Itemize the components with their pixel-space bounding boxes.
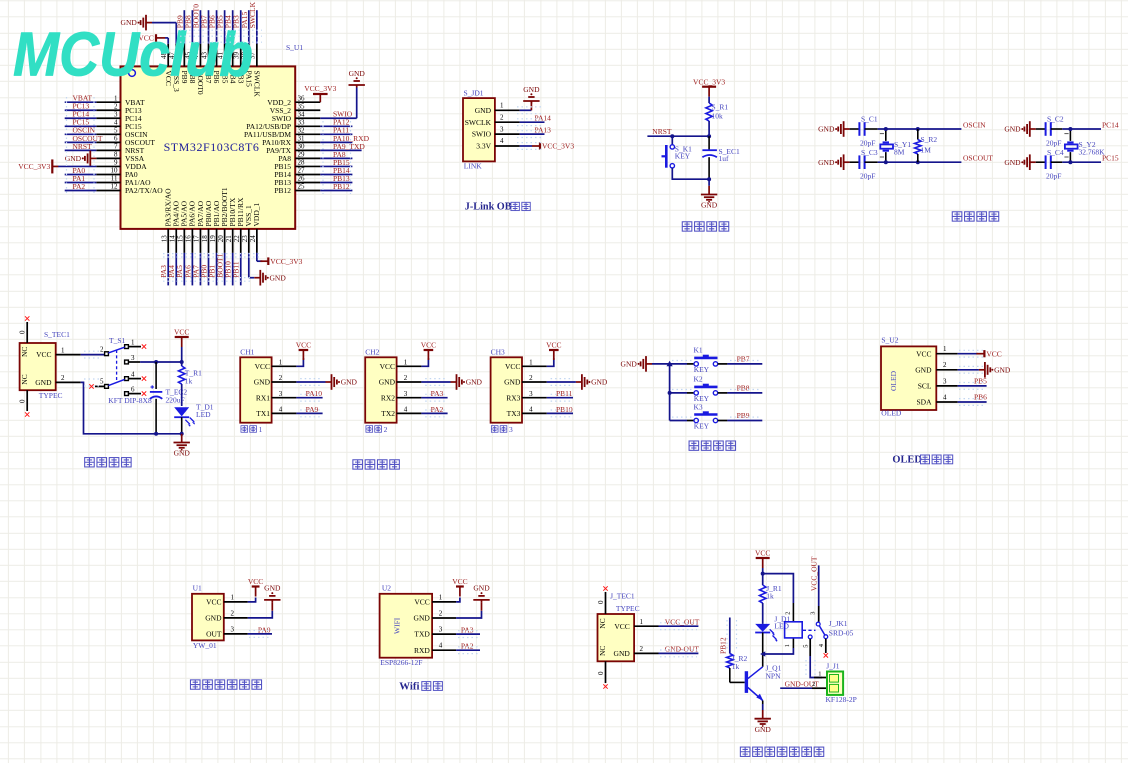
svg-text:2: 2 (114, 102, 118, 110)
svg-text:15: 15 (177, 235, 185, 243)
svg-text:VCC: VCC (36, 350, 51, 359)
svg-text:GND: GND (379, 378, 396, 387)
svg-text:GND: GND (591, 378, 608, 387)
wire net PB10 bottom (224, 253, 233, 286)
MCU pin 23 VSS_1 (241, 205, 253, 253)
svg-text:4: 4 (439, 642, 443, 650)
svg-text:KEY: KEY (694, 365, 710, 374)
svg-text:VCC: VCC (546, 341, 561, 350)
svg-text:12: 12 (111, 183, 119, 191)
svg-text:4: 4 (943, 393, 947, 401)
svg-text:GND: GND (818, 158, 835, 167)
svg-text:2: 2 (500, 113, 504, 121)
wire net PA2 (421, 405, 447, 414)
CH2 pin 2 GND (379, 374, 422, 386)
svg-text:PB9: PB9 (737, 411, 750, 420)
U2 pin 1 VCC (414, 593, 456, 606)
svg-text:VCC_OUT: VCC_OUT (809, 556, 818, 591)
svg-text:J_TEC1: J_TEC1 (610, 591, 635, 600)
resistor T_R1 1k (179, 366, 203, 386)
svg-text:5: 5 (803, 645, 810, 648)
wire + power VCC CH3 (546, 341, 561, 367)
MCU pin 42 PB6 (208, 44, 221, 84)
wire LED to collector (762, 633, 764, 667)
svg-text:3: 3 (439, 626, 443, 634)
S_JD1 pin 3 SWIO (472, 125, 520, 138)
MCU pin 45 PB8 (184, 44, 197, 84)
svg-text:GND: GND (755, 725, 772, 734)
MCU pin 38 PA15 (241, 44, 254, 87)
svg-text:19: 19 (209, 235, 217, 243)
svg-text:PA2/TX/AO: PA2/TX/AO (125, 186, 163, 195)
svg-text:PA0: PA0 (258, 625, 271, 634)
wire R1 to LED relay (762, 603, 764, 624)
wire net PB0 bottom (199, 253, 208, 286)
label serial port 2 (366, 425, 388, 434)
svg-text:1uf: 1uf (719, 154, 730, 163)
svg-text:3: 3 (943, 377, 947, 385)
S_TEC1 bottom pin 0 (19, 390, 30, 417)
wire ground to key column (652, 363, 670, 365)
wire net PB11 (547, 389, 573, 398)
crystal S_Y1 8M (880, 129, 912, 162)
CH3 pin 1 VCC (505, 359, 547, 371)
MCU pin 4 PC15 (96, 118, 142, 130)
svg-text:PA2: PA2 (461, 642, 474, 651)
MCU pin 36 VDD_2 (267, 94, 320, 106)
MCU pin 14 PA4/AO (169, 200, 181, 253)
svg-text:25: 25 (298, 183, 306, 191)
svg-text:T_S1: T_S1 (109, 336, 126, 345)
MCU pin 43 PB7 (200, 44, 213, 84)
wire coil bottom to junction (792, 638, 794, 648)
ground crystal2 bottom (1004, 154, 1035, 170)
svg-text:20pF: 20pF (860, 172, 875, 181)
svg-text:16: 16 (185, 235, 193, 243)
svg-text:PB8: PB8 (737, 383, 750, 392)
svg-text:2: 2 (404, 374, 408, 382)
wire net PA11 (320, 126, 352, 135)
svg-text:4: 4 (500, 137, 504, 145)
svg-text:S_U1: S_U1 (286, 43, 303, 52)
wire net VCC_OUT (659, 617, 700, 626)
wire net PA3 wifi (456, 626, 480, 635)
title power circuit (85, 458, 131, 467)
title water level module (190, 680, 261, 689)
svg-text:SRD-05: SRD-05 (829, 628, 854, 637)
svg-text:RXD: RXD (414, 646, 430, 655)
MCU U1 body STM32F103C8T6 (S_U1) (121, 66, 296, 229)
svg-text:4: 4 (131, 371, 135, 379)
MCU pin 15 PA5/AO (177, 200, 189, 253)
ground at MCU pin 47 VSS_3 (121, 15, 177, 44)
svg-text:32: 32 (298, 127, 306, 135)
svg-text:20pF: 20pF (1046, 172, 1061, 181)
CH1 pin 3 RX1 (256, 390, 297, 402)
svg-text:29: 29 (298, 151, 306, 159)
CH2 pin 4 TX2 (381, 406, 421, 418)
svg-text:KFT DIP-8X8: KFT DIP-8X8 (108, 396, 152, 405)
transistor J_Q1 NPN (746, 664, 781, 701)
svg-text:3: 3 (529, 390, 533, 398)
svg-text:17: 17 (193, 235, 201, 243)
wire NRST node to cap (708, 136, 710, 150)
svg-text:1: 1 (529, 359, 533, 367)
svg-text:GND: GND (349, 69, 366, 78)
connector CH1 body (240, 357, 271, 422)
svg-text:18: 18 (201, 235, 209, 243)
svg-text:1: 1 (439, 593, 443, 601)
ground crystal2 top (1004, 121, 1035, 137)
MCU pin 39 PB3 (233, 44, 246, 84)
svg-text:0: 0 (19, 330, 27, 334)
MCU pin 20 PB2/BOOT1 (217, 187, 229, 253)
svg-text:2: 2 (279, 374, 283, 382)
S_TEC1 pin 2 GND (20, 374, 81, 387)
wire OSCIN (865, 121, 986, 130)
wire net PA0 (65, 166, 97, 175)
ground reset (701, 179, 718, 209)
S_TEC1 top pin 0 (19, 316, 30, 343)
pushbutton K2 KEY (670, 375, 728, 403)
svg-text:GND: GND (614, 649, 631, 658)
wire net PC14 (65, 110, 97, 119)
ground power circuit (174, 434, 191, 458)
svg-text:TX1: TX1 (256, 409, 270, 418)
ground crystal1 top (818, 121, 849, 137)
wire net PA2 (65, 182, 97, 191)
wire net PA9_TXD (320, 142, 365, 151)
svg-text:5: 5 (114, 127, 118, 135)
svg-text:NPN: NPN (766, 672, 782, 681)
MCU pin 31 PA10/RX (262, 135, 320, 147)
wire net PB7 top (200, 10, 209, 44)
wire net PA3 (421, 389, 447, 398)
wire net PB9 top (175, 10, 184, 44)
svg-text:SWCLK: SWCLK (253, 71, 262, 98)
svg-text:3: 3 (809, 611, 816, 614)
node junction ground rail (707, 177, 711, 181)
wire down to key S_K1 (671, 136, 673, 145)
svg-text:S_C3: S_C3 (861, 148, 878, 157)
svg-text:1: 1 (231, 593, 235, 601)
capacitor S_C3 20pF (850, 148, 878, 181)
svg-text:CH1: CH1 (240, 348, 254, 357)
wire LED to ground rail (181, 417, 183, 434)
U2 pin 2 GND (414, 609, 457, 622)
svg-text:S_C4: S_C4 (1047, 148, 1064, 157)
svg-text:SWIO: SWIO (472, 130, 492, 139)
svg-text:PA2: PA2 (431, 405, 444, 414)
U1 pin 2 GND (205, 609, 248, 622)
capacitor S_EC1 1uf (702, 147, 740, 163)
svg-text:OSCOUT: OSCOUT (963, 154, 993, 163)
wire net PB13 (320, 174, 352, 183)
svg-text:4: 4 (404, 406, 408, 414)
wire net PA9 (296, 405, 322, 414)
svg-text:2: 2 (61, 374, 65, 382)
wire net PB5 (958, 376, 987, 386)
svg-text:VCC: VCC (755, 549, 770, 558)
svg-text:NRST: NRST (73, 142, 93, 151)
MCU pin 2 PC13 (96, 102, 142, 114)
svg-text:PB11: PB11 (232, 261, 241, 278)
ground rail wire power circuit (81, 382, 182, 433)
svg-text:NRST: NRST (652, 127, 672, 136)
svg-text:10k: 10k (712, 112, 724, 121)
svg-text:9: 9 (114, 159, 118, 167)
svg-text:S_TEC1: S_TEC1 (44, 330, 70, 339)
svg-text:3: 3 (114, 110, 118, 118)
wire OSCOUT (865, 154, 994, 163)
svg-text:1: 1 (259, 425, 263, 434)
svg-text:PA9: PA9 (306, 405, 319, 414)
svg-text:2: 2 (785, 612, 792, 615)
svg-text:VCC_3V3: VCC_3V3 (304, 84, 336, 93)
wire net GND-OUT to J_J1 pin2 (780, 679, 819, 688)
svg-text:PA10: PA10 (306, 389, 323, 398)
svg-text:GND: GND (341, 378, 358, 387)
svg-text:U2: U2 (382, 583, 391, 592)
MCU marker circle (129, 70, 136, 77)
svg-text:22: 22 (233, 235, 241, 243)
svg-text:GND: GND (174, 449, 191, 458)
CH1 pin 1 VCC (255, 359, 297, 371)
svg-text:SWIO: SWIO (333, 110, 353, 119)
wire VCC to switch (81, 354, 105, 356)
svg-text:GND: GND (205, 614, 222, 623)
wire net PA0 (248, 625, 272, 634)
svg-text:VCC_3V3: VCC_3V3 (18, 162, 50, 171)
wire net PB14 (320, 166, 352, 175)
svg-text:1: 1 (640, 618, 644, 626)
MCU pin 44 BOOT0 (192, 44, 205, 95)
svg-text:GND: GND (915, 365, 932, 374)
svg-text:1: 1 (943, 345, 947, 353)
U2 pin 3 TXD (414, 626, 456, 639)
resistor S_R1 10k (706, 103, 729, 122)
svg-text:PB10: PB10 (556, 405, 573, 414)
MCU pin 35 VSS_2 (270, 102, 321, 114)
wire net PB11 bottom (232, 253, 241, 286)
svg-text:2: 2 (100, 346, 104, 354)
crystal S_Y2 32.768K (1064, 129, 1105, 162)
CH2 pin 3 RX2 (381, 390, 422, 402)
wire net PA14 (520, 113, 552, 122)
MCU pin 8 VSSA (96, 151, 144, 163)
wire net PA12 (320, 118, 352, 127)
svg-text:RX3: RX3 (506, 393, 520, 402)
module U2 body ESP8266 (380, 594, 433, 658)
connector J_J1 KF128-2P (812, 661, 857, 704)
MCU pin 6 OSCOUT (96, 135, 155, 147)
svg-text:20: 20 (217, 235, 225, 243)
svg-text:1: 1 (404, 359, 408, 367)
svg-text:1: 1 (279, 359, 283, 367)
svg-text:OLED: OLED (892, 455, 921, 466)
svg-text:TXD: TXD (414, 630, 430, 639)
MCU pin 25 PB12 (274, 183, 320, 195)
svg-text:SCL: SCL (918, 382, 932, 391)
svg-text:14: 14 (169, 235, 177, 243)
MCU pin 21 PB10/TX (225, 197, 237, 253)
svg-text:1: 1 (131, 339, 135, 347)
svg-text:GND: GND (35, 378, 52, 387)
MCU pin 24 VDD_1 (249, 203, 261, 253)
MCU pin 3 PC14 (96, 110, 142, 122)
power VCC of power circuit (174, 328, 189, 347)
power VCC_3V3 at MCU pin 24 VDD_1 (257, 253, 303, 266)
svg-text:Wifi: Wifi (399, 681, 419, 693)
wire + ground CH2 (421, 374, 482, 390)
svg-text:4: 4 (818, 643, 825, 647)
wire net PB6 (958, 392, 987, 402)
wire net SWCLK top (248, 1, 257, 43)
connector S_U2 OLED body (881, 346, 936, 410)
wire switch pin3 to VCC column (140, 361, 182, 363)
wire cap to ground rail (155, 399, 157, 434)
svg-text:34: 34 (298, 110, 306, 118)
svg-text:5: 5 (100, 377, 104, 385)
capacitor S_C1 20pF (850, 114, 878, 147)
svg-text:SWCLK: SWCLK (465, 118, 492, 127)
svg-text:NC: NC (598, 618, 607, 628)
node junction arrow K1 (667, 361, 673, 367)
svg-text:PA3: PA3 (461, 626, 474, 635)
svg-text:GND: GND (1004, 158, 1021, 167)
svg-text:PB12: PB12 (274, 186, 291, 195)
svg-text:GND: GND (818, 125, 835, 134)
svg-text:2: 2 (943, 361, 947, 369)
node junction cap top (154, 360, 158, 364)
wire relay pin5 to connector J_J1 (810, 656, 822, 678)
svg-text:1: 1 (61, 346, 65, 354)
svg-text:3: 3 (509, 425, 513, 434)
svg-text:WIFI: WIFI (393, 617, 402, 634)
power VCC relay (755, 549, 770, 568)
svg-text:1M: 1M (921, 146, 932, 155)
svg-text:TYPEC: TYPEC (39, 391, 63, 400)
svg-text:4: 4 (114, 118, 118, 126)
J_TEC1 pin 1 VCC (598, 618, 659, 631)
resistor J_R1 1k (760, 584, 782, 603)
svg-text:20pF: 20pF (1046, 139, 1061, 148)
svg-text:PC14: PC14 (1102, 121, 1119, 130)
wire net PA10 (296, 389, 322, 398)
wire net OSCOUT (65, 134, 103, 143)
svg-text:1: 1 (784, 644, 791, 647)
svg-text:PA2: PA2 (73, 182, 86, 191)
svg-text:27: 27 (298, 167, 306, 175)
title serial circuit (353, 460, 399, 469)
svg-text:K3: K3 (694, 402, 703, 411)
svg-text:VCC_3V3: VCC_3V3 (542, 142, 574, 151)
svg-text:PB6: PB6 (974, 392, 987, 401)
svg-text:VCC: VCC (421, 341, 436, 350)
svg-text:RX1: RX1 (256, 393, 270, 402)
node junction relay coil branch (761, 572, 765, 576)
wire net PC13 (65, 102, 97, 111)
svg-text:YW_01: YW_01 (193, 641, 217, 650)
svg-text:2: 2 (812, 681, 815, 688)
svg-text:S_R1: S_R1 (712, 103, 729, 112)
svg-text:VCC: VCC (380, 362, 395, 371)
node junction switch/VCC (180, 360, 184, 364)
svg-text:VDD_1: VDD_1 (252, 203, 261, 227)
svg-text:VCC: VCC (986, 349, 1001, 358)
svg-text:26: 26 (298, 175, 306, 183)
relay switch contacts (803, 606, 828, 658)
resistor S_R2 1M (915, 129, 938, 162)
svg-text:1: 1 (500, 102, 504, 110)
svg-text:PB11: PB11 (556, 389, 573, 398)
svg-text:GND: GND (1004, 125, 1021, 134)
S_U2 pin 4 SDA (916, 393, 957, 406)
svg-text:GND: GND (621, 360, 638, 369)
capacitor S_C4 20pF (1036, 148, 1064, 181)
wire VCC to R1 (708, 97, 710, 103)
wire + power VCC U1 (248, 577, 264, 602)
ground keys (621, 356, 652, 372)
pushbutton K3 KEY (670, 402, 728, 430)
svg-text:21: 21 (225, 235, 233, 243)
MCU pin 9 VDDA (96, 159, 147, 171)
power VCC_3V3 reset (693, 77, 725, 96)
svg-text:28: 28 (298, 159, 306, 167)
svg-text:TYPEC: TYPEC (616, 604, 640, 613)
wire down to cap T_EC2 (155, 362, 157, 389)
svg-text:2: 2 (231, 609, 235, 617)
svg-text:LED: LED (774, 622, 789, 631)
wire net PB4 top (224, 10, 233, 44)
svg-text:PB12: PB12 (333, 182, 350, 191)
wire net PA7 bottom (191, 253, 200, 286)
svg-text:VCC: VCC (255, 362, 270, 371)
node junctions crystal1 (884, 127, 888, 131)
svg-text:3: 3 (279, 390, 283, 398)
svg-text:S_C2: S_C2 (1047, 114, 1064, 123)
power VCC at MCU pin 48 (138, 34, 168, 44)
MCU pin 19 PB1/AO (209, 200, 221, 253)
ground relay transistor (755, 710, 772, 734)
wire R2 to base (729, 668, 731, 682)
MCU pin 34 SWIO (272, 110, 320, 122)
svg-text:31: 31 (298, 135, 306, 143)
MCU pin 48 VCC (160, 44, 173, 86)
svg-text:PB12: PB12 (719, 637, 728, 654)
svg-text:30: 30 (298, 143, 306, 151)
svg-text:6: 6 (131, 386, 135, 394)
wire net BOOT1 bottom (216, 253, 225, 286)
S_JD1 pin 1 GND (475, 102, 520, 115)
svg-text:6: 6 (114, 135, 118, 143)
wire net NRST (65, 142, 97, 151)
wire net BOOT0 top (191, 4, 200, 44)
wire net VCC_OUT to relay pin3 (809, 556, 818, 606)
svg-text:GND: GND (473, 584, 490, 593)
CH3 pin 3 RX3 (506, 390, 547, 402)
svg-text:VCC_OUT: VCC_OUT (665, 617, 700, 626)
connector J_TEC1 TYPEC body (598, 614, 635, 661)
wire + power VCC CH1 (296, 341, 311, 367)
svg-text:OLED: OLED (881, 409, 902, 418)
U1 pin 1 VCC (206, 593, 248, 606)
wire net PB3 top (232, 10, 241, 44)
svg-text:GND: GND (701, 201, 718, 210)
node junctions ground rail (154, 432, 158, 436)
MCU pin 11 PA1/AO (96, 175, 151, 187)
svg-text:GND: GND (254, 378, 271, 387)
